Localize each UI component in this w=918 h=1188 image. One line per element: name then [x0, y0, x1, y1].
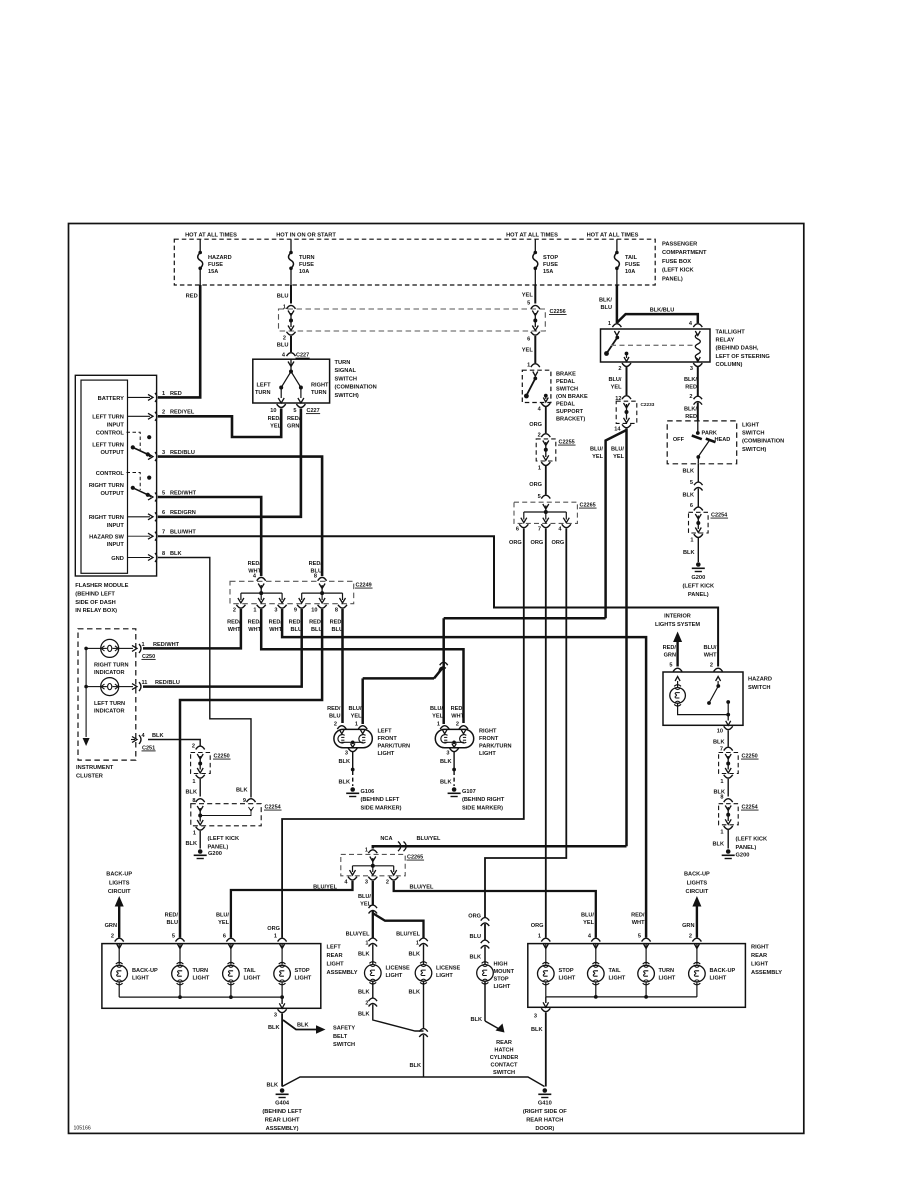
- svg-text:LIGHT: LIGHT: [559, 976, 576, 982]
- svg-text:10: 10: [270, 408, 276, 414]
- svg-text:ORG: ORG: [267, 926, 280, 932]
- svg-text:(BEHIND DASH,: (BEHIND DASH,: [716, 346, 759, 352]
- hazard switch pin 10 BLK: [713, 726, 733, 746]
- svg-text:LIGHT: LIGHT: [193, 976, 210, 982]
- svg-text:(LEFT KICK: (LEFT KICK: [683, 584, 715, 590]
- fuse STOP FUSE 15A: [533, 239, 559, 285]
- svg-text:RED/: RED/: [663, 645, 677, 651]
- svg-text:SWITCH: SWITCH: [742, 431, 764, 437]
- connector C2255 in-line: [529, 433, 575, 495]
- svg-text:YEL: YEL: [611, 384, 622, 390]
- C2265 bottom pins 4 3 2: [344, 877, 398, 886]
- taillight relay bottom pins 2 and 3: [618, 363, 702, 372]
- svg-text:RED/: RED/: [269, 620, 283, 626]
- svg-text:SWITCH: SWITCH: [556, 387, 578, 393]
- right rear back-up light bulb: [689, 944, 736, 997]
- svg-text:5: 5: [638, 934, 641, 940]
- svg-text:PANEL): PANEL): [688, 592, 709, 598]
- svg-text:RED/: RED/: [451, 706, 465, 712]
- left rear back-up light bulb: [111, 944, 158, 998]
- svg-text:1: 1: [720, 779, 723, 785]
- svg-text:LIGHT: LIGHT: [378, 751, 395, 757]
- svg-text:REAR: REAR: [327, 953, 343, 959]
- svg-text:FUSE BOX: FUSE BOX: [662, 259, 691, 265]
- svg-text:SWITCH: SWITCH: [493, 1070, 515, 1076]
- ground G200 hazard chain left kick panel: [722, 849, 750, 858]
- svg-text:2: 2: [386, 880, 389, 886]
- flasher pin 6 RIGHT TURN INPUT: [89, 510, 196, 529]
- svg-text:1: 1: [608, 321, 611, 327]
- svg-text:6: 6: [516, 527, 519, 533]
- svg-text:BLK: BLK: [267, 1083, 279, 1089]
- svg-text:2: 2: [689, 394, 692, 400]
- svg-text:YEL: YEL: [218, 920, 229, 926]
- svg-text:CIRCUIT: CIRCUIT: [686, 889, 709, 895]
- svg-text:C227: C227: [307, 408, 320, 414]
- svg-text:OUTPUT: OUTPUT: [101, 450, 125, 456]
- svg-text:(BEHIND LEFT: (BEHIND LEFT: [75, 591, 115, 597]
- svg-text:HAZARD: HAZARD: [748, 677, 772, 683]
- svg-text:2: 2: [111, 934, 114, 940]
- svg-text:REAR HATCH: REAR HATCH: [526, 1118, 563, 1124]
- wire ORG C2265 pin 4 to high mount stop light: [485, 529, 566, 918]
- svg-text:RED: RED: [685, 384, 697, 390]
- interior lights system arrow RED/GRN: [655, 614, 700, 667]
- svg-text:RED/: RED/: [289, 620, 303, 626]
- flasher pin 8 GND: [111, 551, 181, 562]
- connector C2265 upper fragment (ORG): [514, 494, 597, 523]
- svg-text:(COMBINATION: (COMBINATION: [742, 439, 784, 445]
- svg-text:BLK: BLK: [186, 841, 198, 847]
- svg-text:BLK: BLK: [236, 788, 248, 794]
- connector C2249 box: [230, 581, 373, 603]
- instrument cluster pin 1 C250: [132, 642, 180, 660]
- right rear light assembly top pins 1 4 5 2: [538, 934, 702, 942]
- wire YEL C2256 to brake pedal switch: [527, 336, 540, 369]
- svg-text:LIGHT: LIGHT: [659, 976, 676, 982]
- svg-text:HOT AT ALL TIMES: HOT AT ALL TIMES: [185, 233, 237, 239]
- flasher left turn control contact: [92, 430, 151, 456]
- svg-text:8: 8: [314, 574, 317, 580]
- diagram border frame: [69, 224, 804, 1134]
- brake pedal switch dashed box: [522, 370, 588, 422]
- svg-text:HOT AT ALL TIMES: HOT AT ALL TIMES: [506, 233, 558, 239]
- svg-text:ORG: ORG: [468, 914, 481, 920]
- svg-text:RED/BLU: RED/BLU: [155, 680, 180, 686]
- svg-text:1: 1: [416, 941, 419, 947]
- svg-text:5: 5: [669, 663, 672, 669]
- turn signal switch bottom pins 10 and 5 C227: [268, 404, 321, 429]
- wire BLU turn fuse to connector C2256: [277, 285, 291, 304]
- svg-text:ORG: ORG: [509, 540, 522, 546]
- svg-text:5: 5: [538, 494, 541, 500]
- svg-text:BLU/YEL: BLU/YEL: [410, 885, 435, 891]
- svg-text:RED/: RED/: [309, 561, 323, 567]
- connector C2250 left: [186, 744, 231, 797]
- svg-text:BLU: BLU: [311, 627, 323, 633]
- svg-text:BLU/: BLU/: [608, 377, 621, 383]
- svg-text:3: 3: [162, 450, 165, 456]
- passenger compartment fuse box: [174, 239, 707, 285]
- svg-text:RED/: RED/: [165, 913, 179, 919]
- svg-text:HIGH: HIGH: [494, 962, 508, 968]
- svg-text:BLU/: BLU/: [703, 645, 716, 651]
- svg-text:3: 3: [446, 751, 449, 757]
- svg-text:BELT: BELT: [333, 1034, 348, 1040]
- flasher pin 2 LEFT TURN INPUT: [92, 410, 195, 429]
- svg-text:GRN: GRN: [664, 652, 676, 658]
- fuse HAZARD FUSE 15A: [198, 239, 232, 285]
- svg-text:5: 5: [293, 408, 296, 414]
- svg-text:6: 6: [223, 934, 226, 940]
- wire labels above right rear assembly: [531, 913, 645, 930]
- svg-text:WHT: WHT: [269, 627, 282, 633]
- svg-text:BLK: BLK: [471, 1017, 483, 1023]
- svg-text:PANEL): PANEL): [208, 844, 229, 850]
- right front park/turn light body: [435, 729, 511, 758]
- svg-text:1: 1: [365, 848, 368, 854]
- svg-text:TURN: TURN: [335, 360, 351, 366]
- svg-text:TURN: TURN: [299, 255, 315, 261]
- svg-text:FUSE: FUSE: [625, 262, 640, 268]
- svg-text:GRN: GRN: [682, 923, 694, 929]
- svg-text:PARK/TURN: PARK/TURN: [378, 744, 411, 750]
- svg-text:GND: GND: [111, 556, 124, 562]
- left rear light assembly top pins 2 5 6 1: [111, 934, 287, 942]
- svg-text:8: 8: [720, 795, 723, 801]
- svg-text:INPUT: INPUT: [107, 422, 125, 428]
- svg-text:LIGHT: LIGHT: [436, 973, 453, 979]
- left turn indicator bulb: [86, 678, 133, 715]
- svg-text:1: 1: [538, 934, 541, 940]
- svg-text:C2254: C2254: [742, 805, 759, 811]
- svg-text:11: 11: [142, 680, 148, 686]
- connector C2256 left half pins 1 and 2 (BLU): [277, 305, 296, 353]
- wire BLK left rear pin 3 to ground G404: [268, 1014, 282, 1087]
- svg-text:RIGHT: RIGHT: [751, 945, 769, 951]
- svg-text:3: 3: [274, 1013, 277, 1019]
- svg-text:LEFT TURN: LEFT TURN: [92, 443, 124, 449]
- svg-text:OUTPUT: OUTPUT: [101, 491, 125, 497]
- svg-text:C2265: C2265: [407, 855, 423, 861]
- wire BLU/WHT flasher pin 7 to hazard switch pin 2: [158, 536, 718, 666]
- svg-text:(ON BRAKE: (ON BRAKE: [556, 394, 588, 400]
- svg-text:RED/: RED/: [227, 620, 241, 626]
- svg-text:BLK: BLK: [339, 780, 351, 786]
- svg-text:PARK/TURN: PARK/TURN: [479, 744, 512, 750]
- svg-text:RED/: RED/: [248, 561, 262, 567]
- wire BLK cluster pin 5 to connector C2250 left: [148, 740, 200, 746]
- svg-text:3: 3: [345, 751, 348, 757]
- svg-text:BLU/YEL: BLU/YEL: [417, 836, 442, 842]
- license light 1: [346, 932, 424, 1032]
- wire BLU C2256 to turn signal switch pin 4: [282, 336, 535, 359]
- svg-text:G200: G200: [736, 853, 750, 859]
- instrument cluster dashed box: [76, 629, 136, 780]
- svg-text:RIGHT: RIGHT: [479, 729, 497, 735]
- connector C2233 in-line: [614, 396, 654, 433]
- svg-text:8: 8: [192, 798, 195, 804]
- light switch dashed box: [667, 421, 784, 464]
- svg-text:WHT: WHT: [248, 627, 261, 633]
- svg-text:2: 2: [710, 663, 713, 669]
- svg-text:CONTROL: CONTROL: [96, 471, 125, 477]
- taillight relay pin 1: [608, 321, 622, 327]
- svg-text:PEDAL: PEDAL: [556, 402, 576, 408]
- svg-text:G404: G404: [275, 1101, 290, 1107]
- hazard switch pin 2: [703, 645, 722, 672]
- svg-text:BACK-UP: BACK-UP: [132, 968, 158, 974]
- label HOT AT ALL TIMES (hazard fuse): [185, 233, 237, 239]
- svg-text:ASSEMBLY: ASSEMBLY: [751, 970, 782, 976]
- svg-text:2: 2: [618, 366, 621, 372]
- svg-text:(RIGHT SIDE OF: (RIGHT SIDE OF: [523, 1109, 567, 1115]
- left rear light assembly box: [102, 944, 358, 1009]
- svg-text:LEFT OF STEERING: LEFT OF STEERING: [716, 354, 771, 360]
- wire labels RED/WHT RED/BLU above C2249: [248, 561, 323, 574]
- svg-text:SWITCH): SWITCH): [335, 393, 359, 399]
- svg-text:BLU/: BLU/: [430, 706, 443, 712]
- svg-text:(BEHIND LEFT: (BEHIND LEFT: [361, 797, 400, 803]
- svg-text:RED/: RED/: [327, 706, 341, 712]
- svg-text:HEAD: HEAD: [715, 437, 731, 443]
- svg-text:BLK: BLK: [713, 842, 725, 848]
- svg-text:ORG: ORG: [529, 482, 542, 488]
- svg-text:RED/: RED/: [631, 913, 645, 919]
- svg-text:SAFETY: SAFETY: [333, 1026, 355, 1032]
- left rear internal ground bus and pin 3: [119, 997, 286, 1018]
- svg-text:PARK: PARK: [702, 431, 717, 437]
- svg-text:RED: RED: [186, 294, 198, 300]
- svg-text:GRN: GRN: [105, 923, 117, 929]
- wire RED hazard fuse to flasher pin 1: [158, 285, 200, 397]
- svg-text:RIGHT TURN: RIGHT TURN: [94, 663, 129, 669]
- svg-text:INTERIOR: INTERIOR: [664, 614, 691, 620]
- flasher pin 1 BATTERY: [98, 391, 182, 402]
- svg-text:C2256: C2256: [550, 309, 566, 315]
- wire RED/BLU C2249 pin 8 to left front park/turn pin 2: [341, 609, 344, 723]
- C2249 top pin 8: [314, 574, 327, 594]
- instrument cluster pin 5 BLK C251: [131, 733, 164, 751]
- svg-text:YEL: YEL: [522, 348, 534, 354]
- C2265 upper bottom pins 6 7 4: [509, 524, 571, 546]
- right rear light assembly box: [528, 944, 782, 1008]
- wire BLK/RED relay pin 3 to light switch: [684, 367, 702, 421]
- svg-text:BLU/: BLU/: [348, 706, 361, 712]
- flasher pin 5 RED/WHT output: [148, 490, 197, 501]
- svg-text:5: 5: [162, 490, 165, 496]
- svg-text:FRONT: FRONT: [378, 736, 398, 742]
- svg-text:BLK: BLK: [683, 550, 695, 556]
- svg-text:LEFT TURN: LEFT TURN: [94, 701, 125, 707]
- svg-text:4: 4: [558, 527, 562, 533]
- svg-text:TURN: TURN: [193, 968, 209, 974]
- wire BLK license lights ground bus: [282, 1077, 544, 1087]
- svg-text:LIGHT: LIGHT: [710, 976, 727, 982]
- svg-text:BATTERY: BATTERY: [98, 396, 124, 402]
- svg-text:INPUT: INPUT: [107, 542, 125, 548]
- wire labels BLU/YEL RED/WHT right front: [430, 706, 465, 719]
- svg-text:LIGHT: LIGHT: [751, 962, 769, 968]
- svg-text:BLU/YEL: BLU/YEL: [396, 932, 421, 938]
- svg-text:1: 1: [192, 779, 195, 785]
- left front park/turn light pins 2 and 1: [334, 722, 367, 730]
- svg-text:TURN: TURN: [255, 390, 271, 396]
- svg-text:2: 2: [192, 744, 195, 750]
- svg-text:INDICATOR: INDICATOR: [94, 670, 125, 676]
- svg-text:INDICATOR: INDICATOR: [94, 708, 125, 714]
- svg-text:BLK: BLK: [297, 1023, 309, 1029]
- svg-text:1: 1: [162, 391, 165, 397]
- wire RED/WHT C2249 pin 3 to right rear turn pin 5: [282, 609, 646, 938]
- svg-text:4: 4: [538, 407, 542, 413]
- right back-up lights circuit arrow GRN: [682, 872, 710, 938]
- ground G200 left kick panel: [194, 849, 222, 858]
- svg-text:BLU/: BLU/: [590, 447, 603, 453]
- svg-text:REAR: REAR: [496, 1040, 512, 1046]
- svg-text:LIGHT: LIGHT: [479, 751, 496, 757]
- svg-text:YEL: YEL: [522, 293, 534, 299]
- svg-text:1: 1: [355, 722, 358, 728]
- svg-text:RED/GRN: RED/GRN: [170, 510, 196, 516]
- hazard switch box: [663, 672, 772, 725]
- wire RED/BLU C2249 pin 9 to instrument cluster pin 11: [143, 609, 302, 687]
- left rear stop light bulb: [274, 944, 312, 999]
- svg-text:LIGHT: LIGHT: [386, 973, 403, 979]
- wire BLU/YEL C2265 pin 4 to left rear tail pin 6: [231, 881, 353, 938]
- svg-text:FUSE: FUSE: [543, 262, 558, 268]
- svg-text:BLU/: BLU/: [581, 913, 594, 919]
- svg-text:GRN: GRN: [287, 423, 299, 429]
- connector C2254 right chain: [713, 795, 768, 851]
- svg-text:G200: G200: [691, 575, 705, 581]
- wire RED/WHT C2249 pin 1 to right front park/turn pin 2: [261, 609, 463, 723]
- svg-text:BLU/YEL: BLU/YEL: [346, 932, 371, 938]
- svg-text:COLUMN): COLUMN): [716, 362, 743, 368]
- svg-text:2: 2: [233, 608, 236, 614]
- svg-text:RIGHT TURN: RIGHT TURN: [89, 515, 124, 521]
- svg-text:OFF: OFF: [673, 437, 685, 443]
- svg-text:6: 6: [690, 503, 693, 509]
- svg-text:YEL: YEL: [583, 920, 594, 926]
- high mount stop light chain: [468, 914, 514, 1024]
- svg-text:BRAKE: BRAKE: [556, 372, 576, 378]
- svg-text:BLK: BLK: [409, 990, 421, 996]
- svg-text:LEFT TURN: LEFT TURN: [92, 415, 124, 421]
- svg-text:8: 8: [162, 551, 165, 557]
- svg-text:1: 1: [283, 305, 286, 311]
- svg-text:1: 1: [437, 722, 440, 728]
- svg-text:HATCH: HATCH: [494, 1048, 513, 1054]
- wire labels RED/BLU BLU/YEL left front: [327, 706, 362, 719]
- svg-text:C2255: C2255: [559, 440, 575, 446]
- svg-text:(COMBINATION: (COMBINATION: [335, 385, 377, 391]
- svg-text:4: 4: [282, 353, 286, 359]
- C2249 internal bus bars: [238, 591, 346, 603]
- svg-text:2: 2: [456, 722, 459, 728]
- svg-text:BLK: BLK: [440, 780, 452, 786]
- svg-text:BLK: BLK: [268, 1025, 280, 1031]
- svg-text:BLK: BLK: [713, 740, 725, 746]
- svg-text:4: 4: [588, 934, 592, 940]
- svg-text:C2265: C2265: [580, 503, 596, 509]
- svg-text:10A: 10A: [625, 269, 635, 275]
- branch arrow to safety belt switch: [283, 1020, 355, 1048]
- svg-text:C2250: C2250: [742, 754, 758, 760]
- connector C2254 right half: [683, 503, 728, 562]
- svg-text:REAR: REAR: [751, 953, 767, 959]
- svg-text:PANEL): PANEL): [662, 276, 683, 282]
- svg-text:RED/: RED/: [268, 416, 282, 422]
- wire BLU/YEL C2265 pin 3 to license lights: [358, 881, 424, 939]
- ground G200 light switch chain: [683, 562, 715, 598]
- label HOT AT ALL TIMES (tail fuse): [587, 233, 639, 239]
- svg-text:BACK-UP: BACK-UP: [684, 872, 710, 878]
- svg-text:LEFT: LEFT: [327, 945, 342, 951]
- svg-text:14: 14: [614, 427, 621, 433]
- svg-text:BLK: BLK: [170, 551, 182, 557]
- wire BLU/YEL pair below connector: [590, 429, 627, 847]
- left rear tail light bulb: [223, 944, 261, 999]
- left front pin 3 BLK to ground G106: [339, 748, 402, 811]
- svg-text:2: 2: [162, 410, 165, 416]
- svg-text:C2254: C2254: [711, 513, 728, 519]
- svg-text:BRACKET): BRACKET): [556, 417, 585, 423]
- wire BLK right rear pin 3 to ground G410: [531, 1013, 546, 1087]
- svg-text:1: 1: [253, 608, 256, 614]
- svg-text:RELAY: RELAY: [716, 338, 735, 344]
- svg-text:INPUT: INPUT: [107, 523, 125, 529]
- svg-text:STOP: STOP: [494, 977, 509, 983]
- wire BLK light switch to C2254 right: [683, 464, 703, 507]
- svg-text:BLU/: BLU/: [358, 894, 371, 900]
- ground G404 behind left rear light assembly: [262, 1083, 302, 1133]
- wire RED/WHT C2249 pin 2 to instrument cluster pin 1: [143, 609, 241, 648]
- svg-text:YEL: YEL: [432, 713, 443, 719]
- svg-text:WHT: WHT: [451, 713, 464, 719]
- svg-text:BLK: BLK: [470, 955, 482, 961]
- connector C2265 bottom fragment box: [341, 848, 424, 876]
- svg-text:HAZARD SW: HAZARD SW: [89, 535, 124, 541]
- right front pin 3 BLK to ground G107: [440, 748, 505, 811]
- svg-text:C2233: C2233: [641, 402, 655, 407]
- svg-text:(BEHIND RIGHT: (BEHIND RIGHT: [462, 797, 505, 803]
- brake pedal switch internals: [524, 372, 548, 403]
- connector C2254 left: [186, 788, 282, 851]
- svg-text:BACK-UP: BACK-UP: [106, 872, 132, 878]
- svg-text:105166: 105166: [74, 1126, 91, 1132]
- svg-text:RED/WHT: RED/WHT: [153, 642, 180, 648]
- left rear turn light bulb: [172, 944, 210, 999]
- wire RED/WHT flasher pin 5 to C2249 pin 4: [158, 497, 261, 576]
- svg-text:(LEFT KICK: (LEFT KICK: [662, 268, 694, 274]
- svg-text:8: 8: [335, 608, 338, 614]
- svg-text:RED/: RED/: [248, 620, 262, 626]
- svg-text:SWITCH: SWITCH: [335, 376, 357, 382]
- label HOT AT ALL TIMES (stop fuse): [506, 233, 558, 239]
- svg-text:(BEHIND LEFT: (BEHIND LEFT: [262, 1109, 302, 1115]
- svg-text:3: 3: [274, 608, 277, 614]
- svg-text:SUPPORT: SUPPORT: [556, 409, 584, 415]
- taillight relay switch and coil internals: [604, 331, 700, 362]
- svg-text:YEL: YEL: [592, 454, 603, 460]
- svg-text:BLK: BLK: [683, 493, 695, 499]
- svg-text:BLK: BLK: [440, 759, 452, 765]
- svg-text:STOP: STOP: [543, 255, 558, 261]
- svg-text:1: 1: [274, 934, 277, 940]
- svg-text:LEFT: LEFT: [378, 729, 393, 735]
- wire labels above left rear assembly: [165, 913, 280, 933]
